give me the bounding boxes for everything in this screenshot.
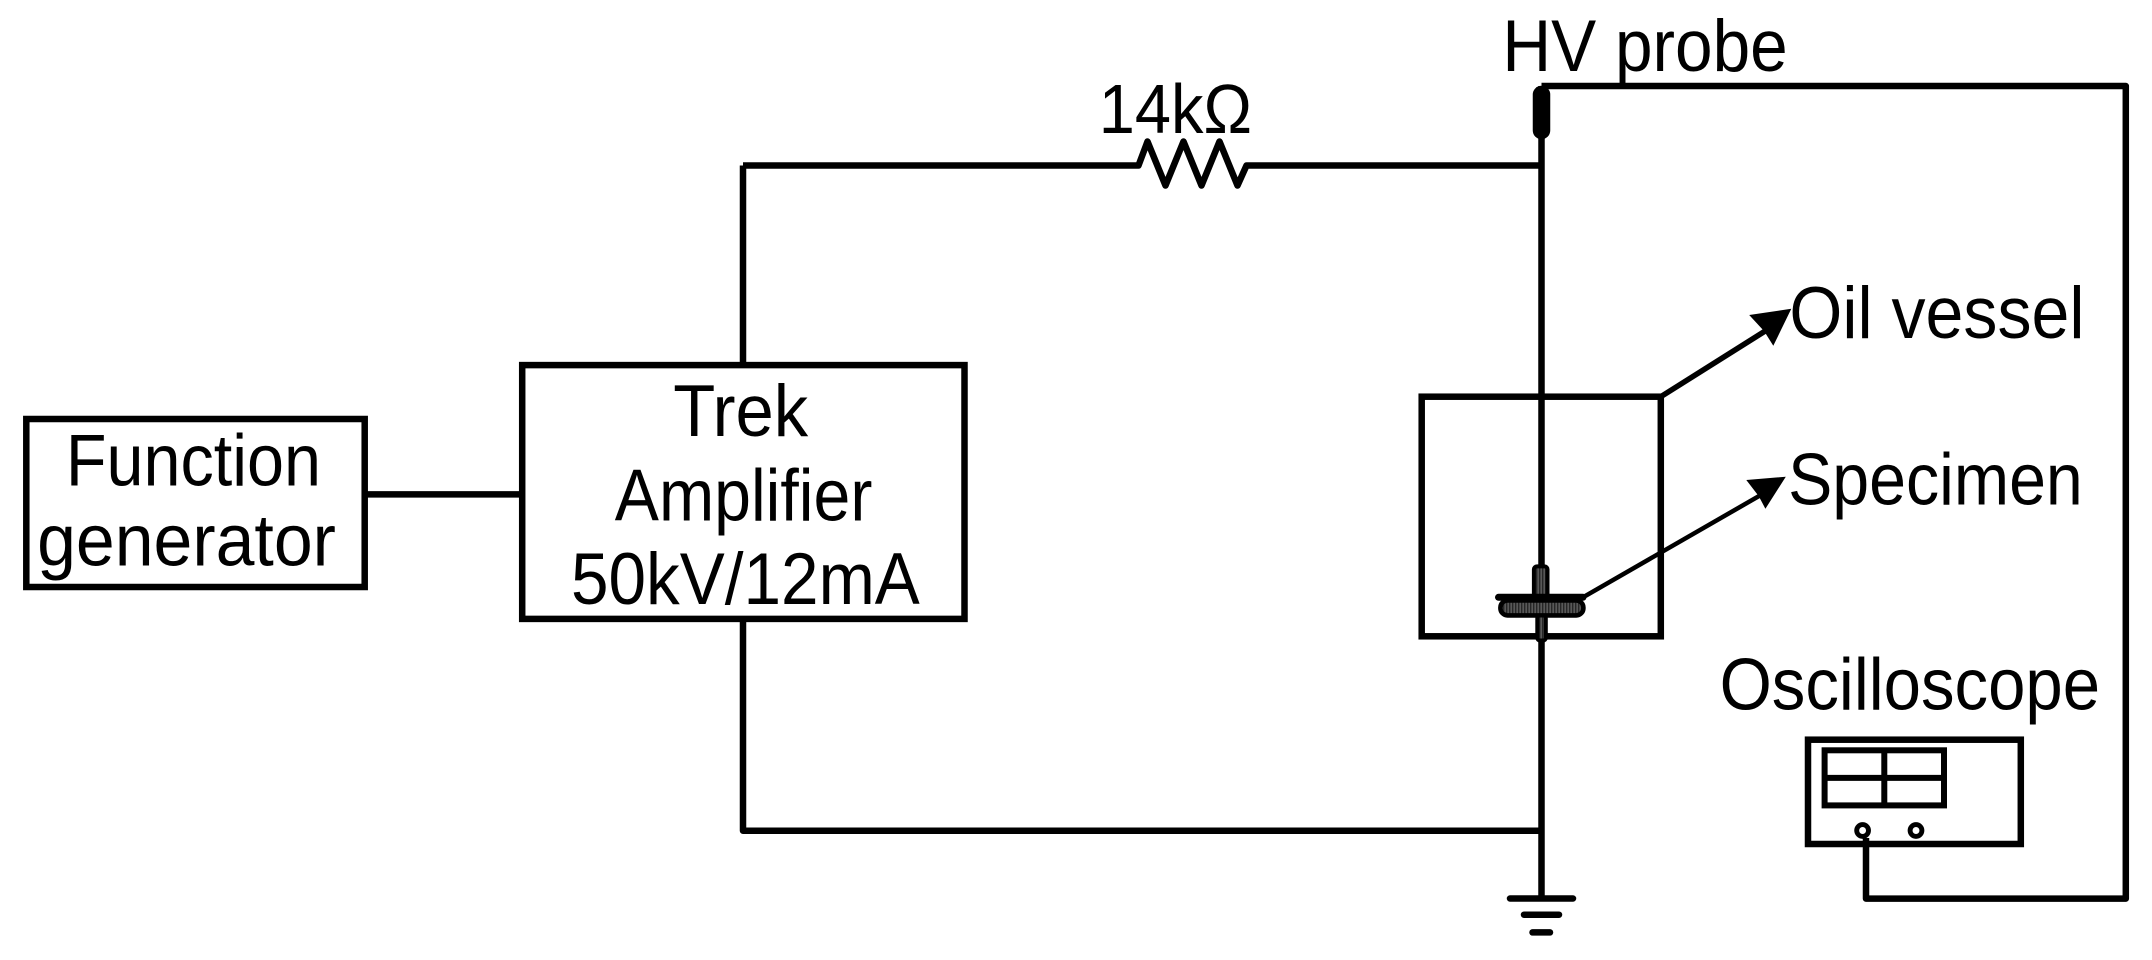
svg-text:Function: Function [66,418,321,501]
svg-text:generator: generator [37,499,336,582]
svg-text:Specimen: Specimen [1788,438,2083,521]
svg-text:Trek: Trek [673,369,808,452]
svg-text:HV probe: HV probe [1502,4,1787,87]
svg-text:14kΩ: 14kΩ [1099,70,1252,148]
svg-text:50kV/12mA: 50kV/12mA [571,537,920,620]
svg-text:Oscilloscope: Oscilloscope [1720,643,2101,726]
svg-text:Oil vessel: Oil vessel [1789,271,2084,354]
svg-text:Amplifier: Amplifier [615,453,873,536]
